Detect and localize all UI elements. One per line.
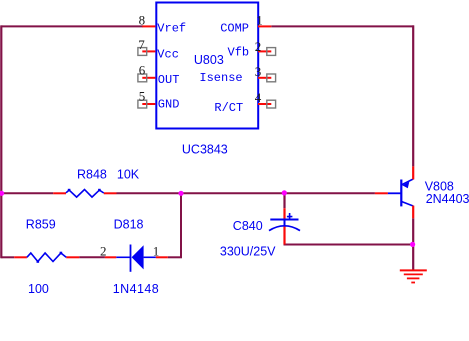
pin 5 stub [142, 103, 155, 105]
svg-text:Isense: Isense [199, 71, 242, 85]
pin 3 stub [258, 77, 271, 79]
svg-text:D818: D818 [114, 217, 144, 231]
svg-text:4: 4 [255, 90, 262, 105]
svg-text:7: 7 [138, 37, 145, 52]
port square pin 2 [267, 48, 276, 56]
svg-text:100: 100 [28, 282, 49, 296]
junction node cap top [282, 190, 287, 195]
svg-text:2N4403: 2N4403 [426, 192, 469, 206]
IC U803 box [156, 3, 258, 129]
svg-text:R859: R859 [26, 217, 56, 231]
wire pin8 to left edge [1, 25, 143, 27]
wire cap bottom to ground node [284, 244, 414, 246]
ground [400, 270, 427, 282]
svg-text:10K: 10K [117, 168, 140, 182]
wire mid horizontal node to cap node [181, 192, 285, 194]
svg-text:R848: R848 [77, 168, 107, 182]
wire mid horizontal cap node to base [285, 192, 375, 194]
svg-text:5: 5 [139, 89, 146, 104]
wire vertical node to diode branch [180, 192, 182, 257]
svg-text:U803: U803 [194, 53, 224, 67]
svg-text:6: 6 [139, 62, 146, 77]
diode D818 [105, 245, 168, 272]
wire left vertical [0, 25, 2, 258]
wire bottom-left stub to R859 [1, 256, 14, 258]
pin 1 stub [258, 25, 271, 27]
svg-text:1N4148: 1N4148 [113, 282, 160, 296]
wire R859 to D818 [79, 256, 105, 258]
junction node left [0, 191, 4, 196]
port square pin 6 [138, 74, 147, 82]
pin 7 stub [142, 50, 155, 52]
svg-text:GND: GND [158, 97, 180, 111]
port square pin 7 [138, 48, 147, 56]
wire mid horizontal R848 to node [117, 192, 182, 194]
junction node R848 right [178, 191, 183, 196]
port square pin 5 [138, 100, 147, 108]
wire pin1 COMP to top right corner [271, 25, 414, 27]
svg-text:R/CT: R/CT [214, 101, 243, 115]
svg-text:Vref: Vref [157, 22, 186, 36]
svg-text:8: 8 [139, 13, 146, 28]
svg-text:Vcc: Vcc [157, 47, 179, 61]
svg-text:UC3843: UC3843 [182, 143, 228, 157]
port square pin 3 [267, 74, 276, 82]
svg-text:COMP: COMP [220, 22, 249, 36]
wire top right vertical to emitter [412, 25, 414, 166]
wire cap top stub [283, 193, 285, 208]
pin 2 stub [258, 50, 271, 52]
svg-text:1: 1 [256, 12, 263, 27]
pin 8 stub [142, 25, 155, 27]
transistor V808 [375, 166, 413, 218]
resistor R859 [14, 252, 79, 263]
wire D818 to right corner [168, 256, 182, 258]
capacitor C840 [269, 208, 300, 244]
port square pin 4 [267, 100, 276, 108]
resistor R848 [53, 189, 116, 197]
svg-text:330U/25V: 330U/25V [220, 245, 276, 259]
junction node collector bottom [410, 242, 415, 247]
pin 6 stub [142, 77, 155, 79]
wire mid horizontal left segment [1, 192, 53, 194]
svg-text:C840: C840 [233, 219, 263, 233]
svg-text:3: 3 [255, 64, 262, 79]
svg-text:2: 2 [255, 39, 262, 54]
svg-text:OUT: OUT [158, 73, 180, 87]
svg-text:2: 2 [100, 243, 107, 258]
svg-text:1: 1 [153, 243, 160, 258]
svg-text:Vfb: Vfb [228, 46, 250, 60]
pin 4 stub [258, 103, 271, 105]
wire collector down to ground node [412, 218, 414, 270]
